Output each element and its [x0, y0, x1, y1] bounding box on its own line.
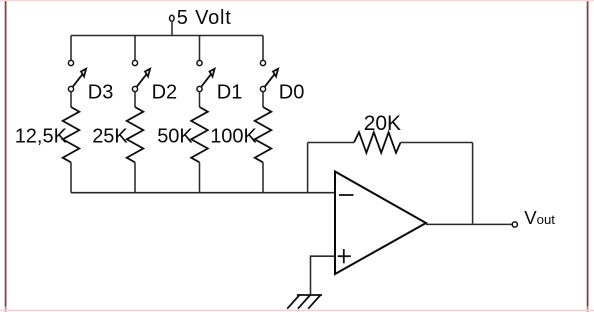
- svg-text:D3: D3: [88, 82, 114, 104]
- ground: [287, 295, 322, 309]
- wire noninverting input: [311, 256, 336, 295]
- wire output: [426, 223, 512, 225]
- resistor R0 100K: [255, 107, 272, 162]
- wire feedback left vertical: [307, 143, 309, 193]
- wire R3 to bus: [70, 162, 72, 192]
- switch S0 top contact: [260, 60, 265, 65]
- svg-text:20K: 20K: [364, 112, 401, 135]
- resistor Rf 20K: [354, 132, 401, 153]
- wire S1 to R1: [199, 92, 201, 107]
- svg-text:50K: 50K: [157, 126, 193, 148]
- switch S3 pole: [68, 86, 73, 91]
- svg-text:12,5K: 12,5K: [15, 126, 68, 148]
- op-amp plus sign: [338, 249, 351, 263]
- wire summing bus to inverting input: [71, 192, 335, 194]
- wire top supply bus: [71, 35, 263, 37]
- frame top border: [0, 0, 594, 2]
- switch S1 top contact: [197, 60, 202, 65]
- svg-text:5 Volt: 5 Volt: [177, 7, 232, 29]
- wire column D2 drop: [134, 36, 136, 61]
- wire S2 to R2: [134, 92, 136, 107]
- wire R0 to bus: [262, 162, 264, 192]
- wire R2 to bus: [134, 162, 136, 192]
- frame left border: [5, 0, 7, 307]
- op-amp U1: [335, 172, 426, 275]
- wire column D0 drop: [262, 36, 264, 61]
- svg-text:25K: 25K: [92, 126, 128, 148]
- svg-text:D1: D1: [217, 82, 243, 104]
- resistor R1 50K: [191, 107, 208, 162]
- wire column D1 drop: [199, 36, 201, 61]
- wire feedback right vertical: [472, 143, 474, 224]
- wire feedback top left: [308, 142, 354, 144]
- node 5V terminal: [170, 15, 175, 21]
- resistor R3 12,5K: [63, 107, 80, 162]
- switch S3 lever: [73, 69, 86, 87]
- switch S1 lever: [201, 69, 214, 87]
- wire S3 to R3: [70, 92, 72, 107]
- svg-text:D2: D2: [152, 82, 178, 104]
- resistor R2 25K: [127, 107, 144, 162]
- switch S0 lever: [265, 69, 278, 87]
- node Vout terminal: [512, 222, 517, 227]
- svg-text:D0: D0: [279, 82, 305, 104]
- switch S0 pole: [260, 86, 265, 91]
- wire S0 to R0: [262, 92, 264, 107]
- wire R1 to bus: [199, 162, 201, 192]
- wire 5V stub: [171, 21, 173, 36]
- switch S2 lever: [137, 69, 150, 87]
- frame bottom border: [0, 309, 594, 311]
- switch S3 top contact: [68, 60, 73, 65]
- svg-text:100K: 100K: [210, 126, 257, 148]
- op-amp minus sign: [339, 194, 354, 196]
- wire column D3 drop: [70, 36, 72, 61]
- switch S1 pole: [197, 86, 202, 91]
- switch S2 pole: [132, 86, 137, 91]
- switch S2 top contact: [132, 60, 137, 65]
- wire feedback top right: [401, 142, 473, 144]
- frame right border: [587, 0, 589, 307]
